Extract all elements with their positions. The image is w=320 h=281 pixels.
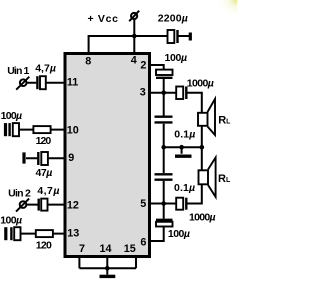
svg-text:3: 3 [140, 87, 146, 99]
svg-text:RL: RL [218, 114, 231, 126]
svg-text:14: 14 [99, 243, 111, 255]
svg-text:13: 13 [67, 228, 79, 240]
svg-text:120: 120 [36, 135, 52, 147]
svg-text:120: 120 [36, 239, 52, 251]
svg-text:5: 5 [140, 198, 146, 210]
svg-text:Uin 1: Uin 1 [7, 65, 29, 77]
svg-text:9: 9 [68, 152, 74, 164]
svg-text:2: 2 [140, 60, 146, 72]
svg-text:100µ: 100µ [168, 228, 190, 240]
svg-text:10: 10 [67, 124, 79, 136]
svg-text:100µ: 100µ [1, 110, 23, 122]
svg-text:100µ: 100µ [165, 52, 188, 64]
svg-text:7: 7 [79, 243, 85, 255]
svg-text:12: 12 [67, 200, 79, 212]
svg-text:Uin 2: Uin 2 [8, 187, 31, 199]
svg-text:1000µ: 1000µ [189, 211, 216, 223]
svg-text:0.1µ: 0.1µ [174, 182, 195, 194]
svg-text:100µ: 100µ [0, 215, 22, 227]
svg-text:4,7µ: 4,7µ [35, 63, 56, 75]
svg-text:8: 8 [85, 56, 91, 68]
svg-text:2200µ: 2200µ [158, 12, 188, 24]
svg-text:15: 15 [124, 243, 136, 255]
svg-text:6: 6 [140, 236, 146, 248]
svg-text:1000µ: 1000µ [187, 78, 214, 90]
svg-text:11: 11 [67, 76, 78, 88]
svg-text:4: 4 [131, 55, 137, 67]
svg-text:RL: RL [218, 173, 231, 185]
svg-text:+ Vcc: + Vcc [88, 13, 119, 25]
svg-text:0.1µ: 0.1µ [174, 129, 195, 141]
svg-text:47µ: 47µ [36, 167, 53, 179]
svg-text:4,7µ: 4,7µ [37, 185, 59, 197]
